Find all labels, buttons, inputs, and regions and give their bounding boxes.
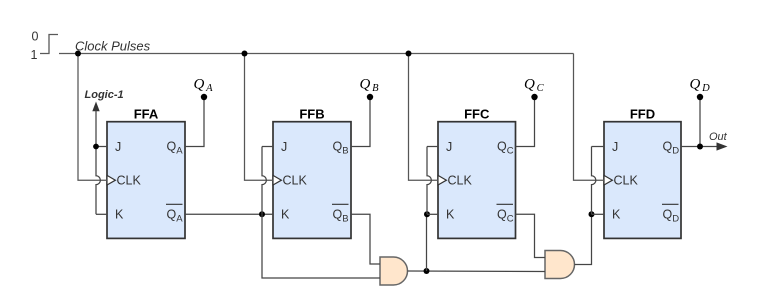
wire: FFA Qbar to FFB K (185, 213, 273, 215)
wire: clock rail (59, 53, 574, 55)
node: FFD K junction (589, 211, 595, 217)
wire: clock to FFA CLK (78, 54, 107, 181)
wire: clock to FFC CLK (409, 54, 439, 181)
svg-text:J: J (446, 140, 452, 154)
Logic-1 source arrow (85, 89, 124, 111)
wire: FFB Qbar to G1 (351, 214, 380, 264)
svg-text:0: 0 (32, 30, 39, 44)
flip-flop FFD (604, 106, 681, 238)
wire: clock to FFB CLK (245, 54, 274, 181)
wire: G2 output to FFD K (575, 214, 592, 264)
and-gate G2 (545, 251, 575, 279)
svg-text:FFA: FFA (134, 106, 159, 121)
svg-text:K: K (612, 208, 621, 222)
wire: QB output (351, 97, 370, 147)
node: QB terminal (367, 94, 373, 100)
node: QC terminal (531, 94, 537, 100)
svg-text:CLK: CLK (283, 174, 308, 188)
svg-text:K: K (115, 208, 124, 222)
svg-text:J: J (115, 140, 121, 154)
wire: FFC JK tie (427, 147, 431, 215)
node: G1 output junction (424, 268, 430, 274)
svg-text:K: K (446, 208, 455, 222)
svg-text:K: K (281, 208, 290, 222)
svg-text:CLK: CLK (117, 174, 142, 188)
wire: Logic-1 to FFA J and K (96, 111, 100, 215)
out arrow (717, 142, 728, 150)
svg-text:CLK: CLK (448, 174, 473, 188)
svg-text:1: 1 (31, 48, 38, 62)
svg-text:J: J (612, 140, 618, 154)
wire: QD tap (699, 97, 701, 147)
node: FFA J junction (93, 144, 99, 150)
wire: FFC Qbar to G2 (516, 214, 546, 257)
node: FFC K junction (424, 211, 430, 217)
wire: FFD JK tie (592, 147, 596, 215)
wire: G1 output to G2 input (408, 270, 546, 273)
wire: QA output (185, 97, 204, 147)
svg-text:FFB: FFB (299, 106, 324, 121)
flip-flop FFC (438, 106, 516, 238)
clock pulse symbol (40, 35, 58, 54)
svg-text:Logic-1: Logic-1 (85, 89, 124, 101)
svg-text:Out: Out (709, 131, 728, 143)
node: FFB K junction (259, 211, 265, 217)
svg-text:J: J (281, 140, 287, 154)
node: QD terminal (697, 94, 703, 100)
wire: QC output (516, 97, 535, 147)
wire: QD output (681, 146, 718, 148)
svg-text:FFD: FFD (630, 106, 655, 121)
wire: FFB JK tie (262, 147, 266, 215)
wire: G1 output up to FFC K (426, 214, 428, 271)
svg-text:FFC: FFC (464, 106, 490, 121)
node: QD junction (697, 144, 703, 150)
and-gate G1 (380, 257, 408, 285)
flip-flop FFA (107, 106, 185, 238)
node: clock junction FFC (406, 51, 412, 57)
svg-text:CLK: CLK (614, 174, 639, 188)
node: clock junction FFA (75, 51, 81, 57)
node: QA terminal (201, 94, 207, 100)
svg-text:Clock Pulses: Clock Pulses (75, 39, 151, 54)
node: clock junction FFB (242, 51, 248, 57)
wire: clock to FFD CLK (574, 54, 605, 181)
flip-flop FFB (273, 106, 351, 238)
wire: FFB K branch to G1 input (262, 214, 380, 278)
